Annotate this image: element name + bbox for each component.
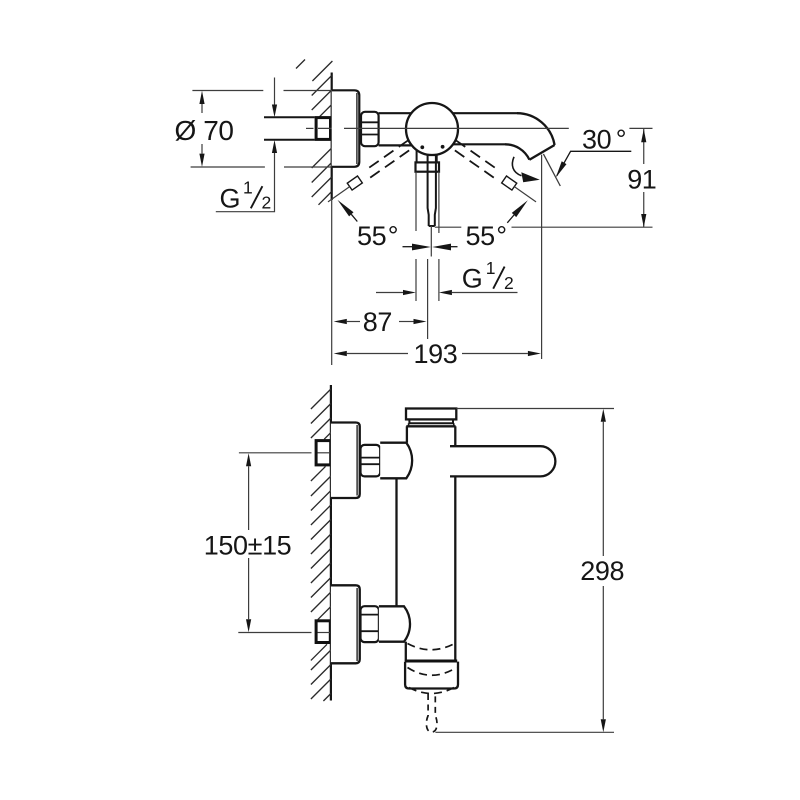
dashed handle position right 55 (451, 140, 539, 205)
dimension 87 (347, 321, 414, 323)
cap groove (409, 419, 453, 423)
spout (top view) (505, 113, 555, 160)
svg-text:150±15: 150±15 (204, 531, 291, 561)
label 55 right (466, 221, 507, 251)
faucet body top cap (side view) (406, 409, 456, 420)
escutcheon seam (356, 93, 358, 164)
svg-text:1: 1 (243, 177, 252, 197)
handle rod (428, 148, 436, 226)
handle (side view) (450, 446, 555, 476)
wall hatching (top view) (296, 60, 332, 205)
label 30deg (582, 125, 626, 155)
spout rotation curved arrow (512, 157, 539, 183)
svg-text:G: G (462, 264, 483, 294)
wall line (top view) (331, 73, 333, 366)
svg-text:91: 91 (627, 165, 656, 195)
faucet body tube (top view) (379, 113, 517, 145)
svg-text:°: ° (388, 221, 398, 251)
body sides (side view) (397, 426, 456, 661)
below nut dashed ellipse (409, 688, 454, 694)
svg-text:°: ° (496, 221, 506, 251)
lower union nut (361, 606, 379, 642)
label G 1/2 (outlet) (462, 258, 513, 294)
dimension 298 (435, 409, 614, 733)
label 55 left (357, 221, 398, 251)
wall hatching (side view) (311, 389, 331, 701)
30 degree leader with arrow (556, 151, 632, 177)
svg-text:55: 55 (466, 221, 495, 251)
pipe centerline dash-dot (top view) (306, 127, 344, 129)
dashed outlet nipple (426, 694, 437, 732)
dimension 193 (347, 155, 542, 359)
outlet dashed ellipse 1 (408, 644, 455, 650)
left 55 angle arrow (338, 200, 358, 222)
dimension D70 (191, 91, 332, 168)
dimension 91 (435, 129, 653, 227)
svg-text:30: 30 (582, 125, 611, 155)
faucet axis centerline (344, 127, 653, 129)
150 reference lines (238, 453, 330, 633)
upper union nut (361, 445, 381, 477)
hose nut dashed ellipse (408, 668, 457, 676)
dimension G 1/2 (wall pipe) (216, 78, 275, 212)
svg-text:87: 87 (363, 307, 392, 337)
55/55 bowtie arrows (403, 244, 458, 251)
right 55 angle arrow (507, 200, 528, 223)
hose connection nut (405, 662, 458, 689)
label G 1/2 (wall pipe) (220, 177, 271, 213)
svg-text:1: 1 (486, 258, 495, 278)
upper union body with dome (380, 443, 412, 479)
lower wall fitting (side view) (316, 621, 330, 643)
screw dots on body (420, 145, 424, 149)
union nut (top view) (361, 112, 379, 146)
svg-text:55: 55 (357, 221, 386, 251)
svg-text:298: 298 (580, 556, 624, 586)
svg-text:°: ° (616, 125, 626, 155)
cartridge cap circle (top view) (406, 103, 458, 155)
handle collar (416, 162, 440, 171)
body shoulder (406, 425, 455, 427)
handle neck lines (417, 147, 437, 162)
svg-text:2: 2 (262, 192, 271, 212)
svg-text:G: G (220, 184, 241, 214)
dashed handle position left 55 (325, 140, 413, 205)
wall fitting square (top view) (316, 118, 330, 140)
30 degree thin angle line (543, 154, 560, 186)
lower escutcheon (side view) (331, 585, 360, 663)
svg-text:Ø 70: Ø 70 (175, 115, 234, 146)
dimension 150+-15 (248, 466, 250, 619)
supply pipe behind wall (top view) (264, 117, 315, 140)
upper escutcheon (side view) (331, 423, 360, 499)
wall line (side view) (330, 385, 332, 701)
dimension G 1/2 (outlet) (376, 292, 518, 294)
outlet thick separator (405, 660, 457, 663)
lower union body with dome (379, 606, 410, 641)
G 1/2 extension lines below handle (416, 172, 439, 339)
escutcheon (top view) (332, 90, 360, 167)
svg-text:2: 2 (504, 273, 513, 293)
svg-text:193: 193 (414, 339, 458, 369)
upper wall fitting (side view) (316, 441, 331, 465)
